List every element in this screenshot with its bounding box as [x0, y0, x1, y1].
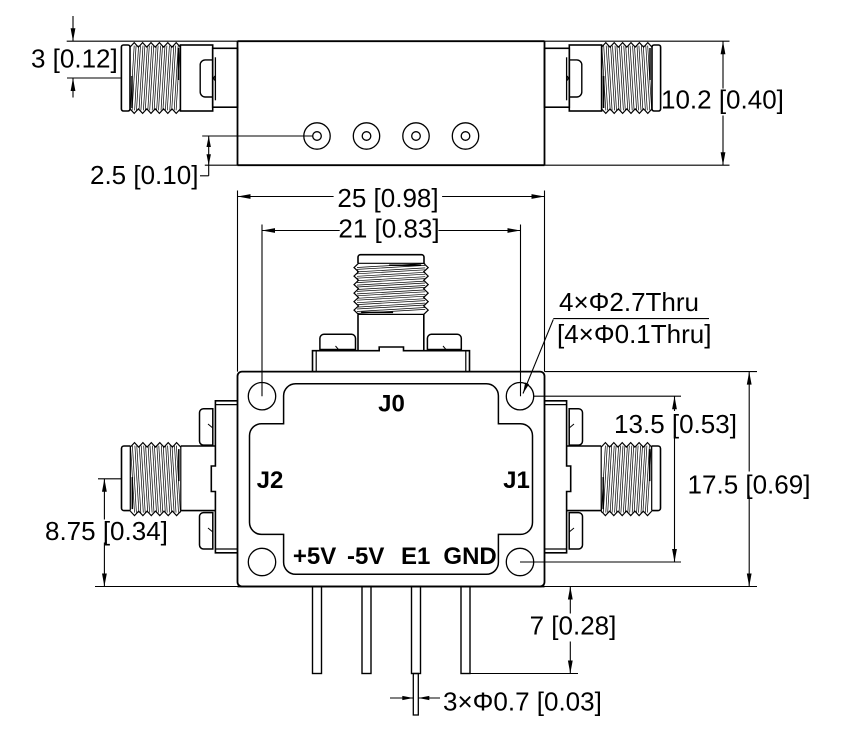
- svg-text:21 [0.83]: 21 [0.83]: [338, 213, 439, 243]
- svg-text:3 [0.12]: 3 [0.12]: [31, 44, 118, 74]
- svg-text:17.5 [0.69]: 17.5 [0.69]: [688, 470, 811, 500]
- svg-text:8.75 [0.34]: 8.75 [0.34]: [45, 516, 168, 546]
- svg-text:7 [0.28]: 7 [0.28]: [530, 611, 617, 641]
- svg-text:3×Φ0.7 [0.03]: 3×Φ0.7 [0.03]: [443, 687, 602, 717]
- svg-text:[4×Φ0.1Thru]: [4×Φ0.1Thru]: [557, 319, 711, 349]
- svg-text:13.5 [0.53]: 13.5 [0.53]: [614, 409, 737, 439]
- svg-text:E1: E1: [401, 543, 430, 570]
- svg-text:+5V: +5V: [293, 543, 336, 570]
- svg-text:10.2 [0.40]: 10.2 [0.40]: [661, 85, 784, 115]
- svg-text:GND: GND: [443, 543, 496, 570]
- svg-text:J0: J0: [378, 391, 405, 418]
- svg-text:2.5 [0.10]: 2.5 [0.10]: [90, 160, 198, 190]
- svg-text:25 [0.98]: 25 [0.98]: [337, 183, 438, 213]
- svg-text:J2: J2: [257, 467, 284, 494]
- svg-text:-5V: -5V: [347, 543, 384, 570]
- svg-text:J1: J1: [503, 467, 530, 494]
- svg-text:4×Φ2.7Thru: 4×Φ2.7Thru: [559, 287, 699, 317]
